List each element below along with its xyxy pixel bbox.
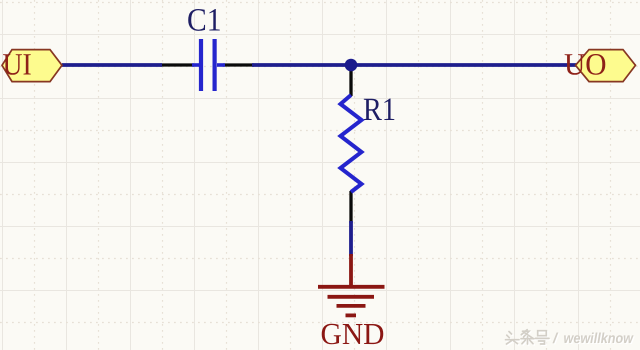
svg-text:GND: GND <box>321 317 385 350</box>
svg-text:C1: C1 <box>187 3 222 39</box>
svg-text:wewillknow: wewillknow <box>564 331 635 347</box>
svg-text:UO: UO <box>564 46 607 81</box>
svg-text:UI: UI <box>3 46 32 81</box>
svg-text:R1: R1 <box>363 92 396 128</box>
